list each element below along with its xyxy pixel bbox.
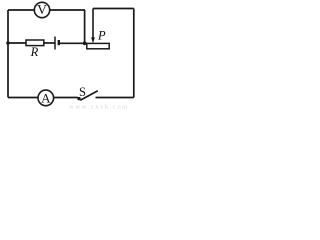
wire: battery to potentiometer, through junction bbox=[60, 42, 87, 44]
svg-text:R: R bbox=[30, 45, 39, 59]
wire: right vertical side bbox=[133, 9, 135, 98]
svg-text:www.zxxk.com: www.zxxk.com bbox=[69, 104, 129, 111]
potentiometer P body bbox=[87, 29, 109, 49]
wire: ammeter to bottom-left corner bbox=[8, 97, 38, 99]
switch S bbox=[77, 85, 98, 101]
wire: resistor to battery bbox=[44, 42, 55, 44]
node: left junction dot bbox=[6, 41, 10, 45]
svg-text:P: P bbox=[97, 29, 106, 43]
wire: top left to voltmeter bbox=[8, 9, 35, 11]
svg-text:A: A bbox=[41, 90, 51, 105]
wire: middle left to resistor bbox=[8, 42, 26, 44]
wire: switch to ammeter bbox=[54, 97, 78, 99]
svg-text:S: S bbox=[79, 85, 86, 99]
resistor R bbox=[26, 40, 44, 59]
wire: slider up and across top right bbox=[93, 8, 134, 10]
node: junction dot at potentiometer bbox=[83, 41, 87, 45]
wire: bottom right to switch bbox=[96, 97, 134, 99]
wire: voltmeter to top-right corner bbox=[50, 9, 85, 11]
battery: short thick plate bbox=[58, 40, 60, 45]
svg-text:V: V bbox=[37, 2, 47, 17]
wire: vertical drop from top wire to junction node bbox=[84, 10, 86, 43]
wire: left vertical side bbox=[7, 10, 9, 98]
voltmeter V bbox=[34, 2, 49, 18]
battery: long plate bbox=[54, 37, 56, 50]
ammeter A bbox=[38, 90, 54, 106]
potentiometer slider arrow bbox=[91, 9, 95, 44]
